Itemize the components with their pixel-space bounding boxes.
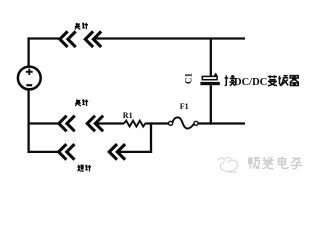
wire bottom rail left bbox=[29, 151, 60, 153]
wire bottom-to-middle riser bbox=[150, 122, 152, 153]
wire capacitor branch upper bbox=[210, 37, 212, 76]
label 长针 top (long pin) bbox=[75, 23, 88, 30]
wire fuse to right stub bbox=[198, 122, 245, 124]
wire resistor to fuse bbox=[147, 122, 169, 124]
wire left vertical (source to top rail) bbox=[27, 37, 29, 67]
label 接DC/DC变换器 (to DC/DC converter) bbox=[225, 75, 236, 86]
label C1 (rotated) bbox=[184, 73, 194, 84]
capacitor C1 bbox=[200, 73, 219, 86]
svg-text:DC/DC: DC/DC bbox=[234, 77, 267, 88]
connector short-pin pair bottom-right bbox=[109, 144, 125, 160]
wire top rail left bbox=[28, 37, 61, 39]
svg-text:F1: F1 bbox=[180, 102, 189, 111]
connector short-pin pair bottom-left bbox=[59, 144, 75, 160]
label 长针 middle (long pin) bbox=[75, 99, 88, 106]
wire bottom rail right bbox=[117, 151, 152, 153]
svg-text:C1: C1 bbox=[184, 73, 194, 84]
svg-text:R1: R1 bbox=[123, 111, 133, 120]
voltage source V1 bbox=[18, 67, 41, 90]
watermark text 畅学电子 bbox=[249, 156, 303, 168]
wire top rail right bbox=[94, 37, 245, 39]
watermark logo (gray bird) bbox=[218, 157, 238, 172]
wire capacitor branch lower bbox=[210, 85, 212, 124]
connector long-pin pair top-left bbox=[60, 31, 76, 47]
connector long-pin pair middle-left bbox=[59, 116, 75, 132]
connector long-pin pair middle-right bbox=[87, 116, 103, 132]
connector long-pin pair top-right bbox=[85, 31, 101, 47]
wire middle rail left bbox=[29, 122, 60, 124]
label 短针 (short pin) bbox=[78, 165, 91, 172]
wire left vertical (source down to bottom rail) bbox=[27, 89, 29, 153]
resistor R1 bbox=[124, 121, 147, 127]
wire middle to resistor bbox=[96, 122, 125, 124]
fuse F1 bbox=[169, 117, 198, 128]
